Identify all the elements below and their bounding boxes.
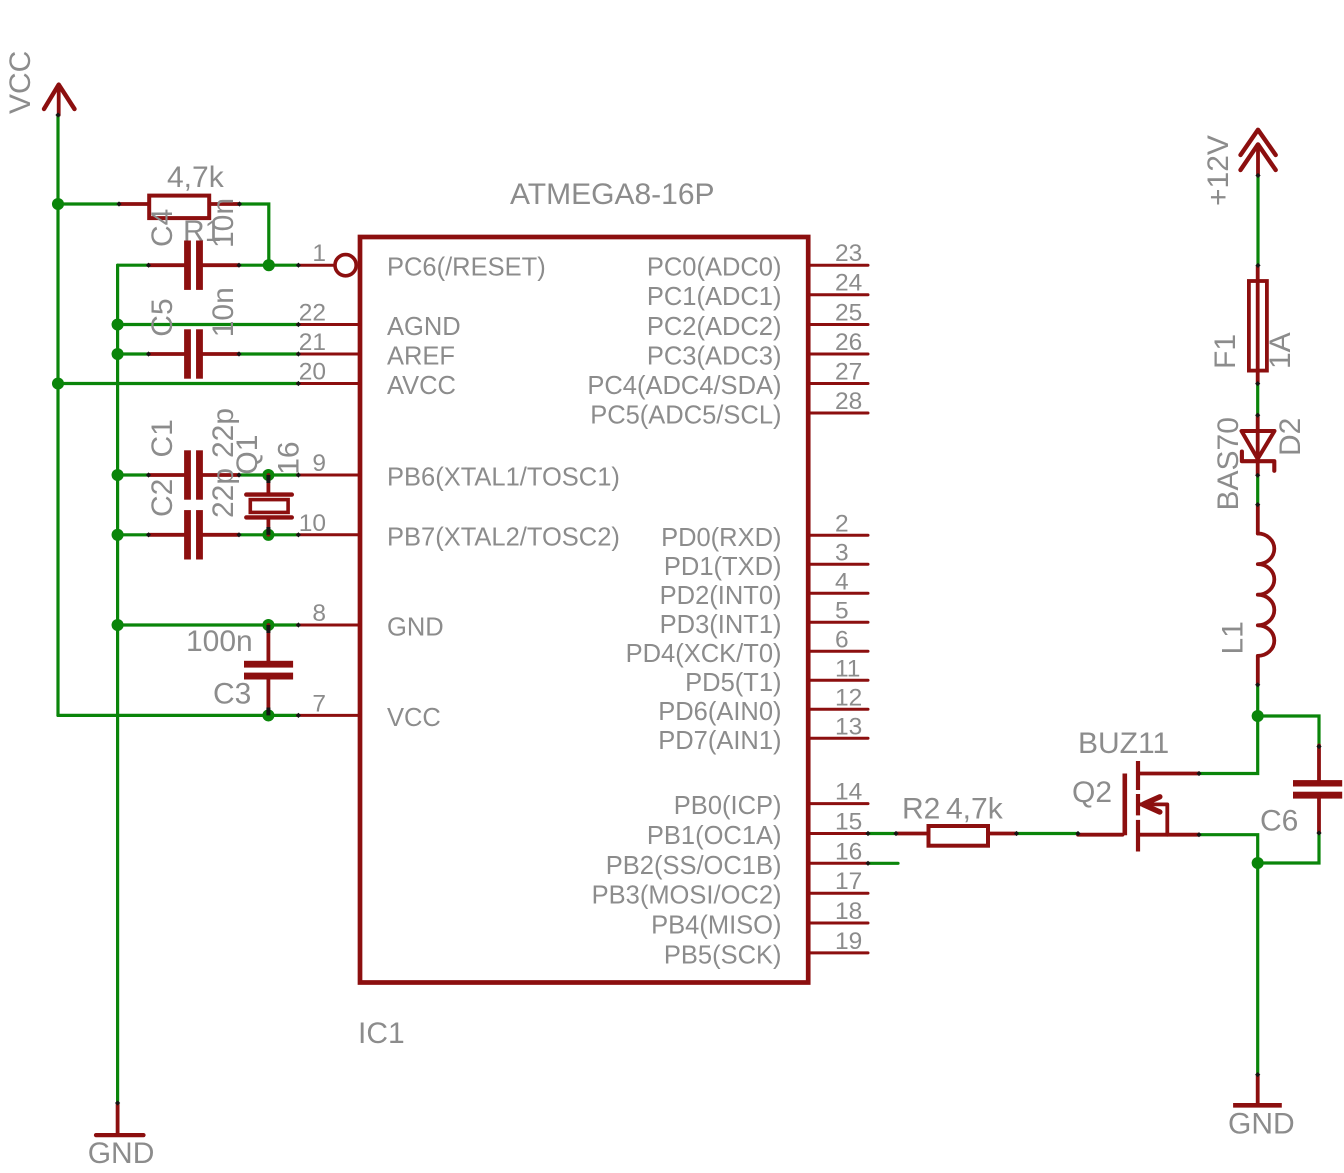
svg-text:Q2: Q2 [1072,776,1112,809]
svg-text:AREF: AREF [387,343,455,371]
pin 22 (AGND) [298,300,461,342]
wire Q2 source to node [1199,835,1258,863]
pin 1 (PC6(/RESET)) [298,240,545,282]
svg-text:4,7k: 4,7k [946,793,1004,826]
junction rail / GND row [112,619,124,631]
svg-text:AVCC: AVCC [387,372,456,400]
pin 2 (PD0(RXD)) [661,510,868,552]
svg-text:25: 25 [835,300,862,327]
svg-text:PB4(MISO): PB4(MISO) [651,912,781,940]
pin 16 (PB2(SS/OC1B)) [606,838,868,880]
wire Q2 drain to node [1199,716,1258,774]
IC U1 ATMEGA8-16P box [360,237,808,983]
svg-text:PD3(INT1): PD3(INT1) [660,611,782,639]
svg-text:PB1(OC1A): PB1(OC1A) [647,822,782,850]
svg-text:18: 18 [835,898,862,925]
svg-text:PD1(TXD): PD1(TXD) [664,553,782,581]
junction GND row / C3 [262,619,274,631]
wire C4 to pin 1 [239,264,298,267]
inductor L1 [1258,505,1275,685]
svg-text:PD2(INT0): PD2(INT0) [660,582,782,610]
wire D2 to L1 [1256,475,1259,504]
pin 23 (PC0(ADC0)) [647,240,868,282]
junction rail / AGND [112,318,124,330]
junction source node [1252,857,1264,869]
wire pin 16 stub [868,862,898,865]
svg-text:GND: GND [1228,1108,1295,1141]
diode D2 BAS70 [1242,415,1275,475]
wire pin 15 to R2 [868,832,896,835]
svg-text:PB2(SS/OC1B): PB2(SS/OC1B) [606,852,782,880]
wire C1 to XTAL1 pin [239,473,298,476]
svg-text:PC6(/RESET): PC6(/RESET) [387,254,546,282]
pin 8 (GND) [298,600,444,642]
junction rail / C2 [112,529,124,541]
junction XTAL1 / Q1 [262,469,274,481]
svg-text:4,7k: 4,7k [167,161,225,194]
pin 28 (PC5(ADC5/SCL)) [590,388,868,430]
pin 9 (PB6(XTAL1/TOSC1)) [298,450,620,492]
svg-text:23: 23 [835,240,862,267]
svg-text:AGND: AGND [387,313,461,341]
wire AVCC row [58,382,298,385]
svg-text:C3: C3 [213,678,251,711]
pin 10 (PB7(XTAL2/TOSC2)) [298,510,620,552]
svg-text:GND: GND [88,1137,155,1170]
svg-text:F1: F1 [1209,334,1242,369]
wire F1 to D2 [1256,384,1259,416]
pin 17 (PB3(MOSI/OC2)) [592,868,868,910]
wire C5 to AREF pin [239,352,298,355]
pin 25 (PC2(ADC2)) [647,300,868,342]
svg-text:21: 21 [299,329,326,356]
svg-text:PC4(ADC4/SDA): PC4(ADC4/SDA) [587,372,781,400]
svg-text:1: 1 [312,240,326,267]
svg-text:PD4(XCK/T0): PD4(XCK/T0) [626,640,782,668]
svg-text:PC1(ADC1): PC1(ADC1) [647,283,782,311]
svg-text:C6: C6 [1260,805,1298,838]
svg-text:GND: GND [387,614,444,642]
crystal Q1 [246,475,291,535]
svg-text:L1: L1 [1216,621,1249,654]
wire R1 to pin 1 node [240,204,269,265]
pin 18 (PB4(MISO)) [651,898,868,940]
svg-text:20: 20 [299,359,326,386]
svg-text:5: 5 [835,597,849,624]
svg-text:10n: 10n [207,198,240,248]
wire rail to C2 [118,533,149,536]
svg-text:ATMEGA8-16P: ATMEGA8-16P [510,178,715,211]
capacitor C3 [244,625,293,715]
pin 7 (VCC) [298,690,441,732]
wire node to GND (right) [1256,863,1259,1075]
capacitor C5 [149,329,240,378]
pin 20 (AVCC) [298,359,456,401]
pin 4 (PD2(INT0)) [660,568,868,610]
svg-text:PB6(XTAL1/TOSC1): PB6(XTAL1/TOSC1) [387,464,620,492]
pin 11 (PD5(T1)) [685,655,868,697]
svg-text:17: 17 [835,868,862,895]
svg-text:VCC: VCC [4,51,37,114]
pin 3 (PD1(TXD)) [664,539,868,581]
wire GND row [118,623,299,626]
wire rail to C5 [118,352,149,355]
svg-text:C4: C4 [146,209,179,247]
pin 26 (PC3(ADC3)) [647,329,868,371]
svg-text:PD7(AIN1): PD7(AIN1) [658,727,781,755]
wire AGND row [118,323,299,326]
wire C6 bottom to node [1258,833,1319,863]
wire VCC rail vertical [56,115,59,715]
svg-text:PB0(ICP): PB0(ICP) [674,792,782,820]
ground GND (left) [96,1105,144,1136]
svg-text:VCC: VCC [387,704,441,732]
junction VCC / R1 [52,198,64,210]
pin-end junction markers [55,112,1321,1105]
supply symbol VCC [44,85,75,115]
junction rail / C5 [112,348,124,360]
svg-text:9: 9 [312,450,326,477]
capacitor C4 [149,241,240,290]
svg-text:Q1: Q1 [231,435,264,475]
junction node /RESET [263,259,275,271]
wire +12V to F1 [1256,176,1259,266]
wire VCC to pin 7 [58,714,298,717]
pin 12 (PD6(AIN0)) [658,684,868,726]
svg-text:27: 27 [835,359,862,386]
svg-text:PC2(ADC2): PC2(ADC2) [647,313,782,341]
wire rail to C4 [118,264,149,267]
wire ground rail vertical [116,265,119,1103]
junction rail / C1 [112,469,124,481]
svg-text:PC3(ADC3): PC3(ADC3) [647,343,782,371]
pin 5 (PD3(INT1)) [660,597,868,639]
fuse F1 [1249,266,1267,384]
svg-text:3: 3 [835,539,849,566]
svg-text:BUZ11: BUZ11 [1078,727,1169,760]
wire L1 to node [1256,685,1259,716]
svg-text:PD0(RXD): PD0(RXD) [661,524,781,552]
svg-text:16: 16 [835,838,862,865]
svg-text:28: 28 [835,388,862,415]
capacitor C1 [149,450,240,499]
svg-text:10n: 10n [207,287,240,337]
svg-text:19: 19 [835,928,862,955]
svg-text:4: 4 [835,568,849,595]
svg-text:6: 6 [835,626,849,653]
svg-text:R2: R2 [902,793,940,826]
capacitor C6 [1293,745,1342,833]
wire VCC to R1 [58,202,119,205]
pin 21 (AREF) [298,329,456,371]
svg-text:26: 26 [835,329,862,356]
svg-text:10: 10 [299,510,326,537]
junction VCC row / C3 [262,709,274,721]
wire C2 to XTAL2 pin [239,533,298,536]
pin tips at junctions [266,475,270,483]
svg-text:13: 13 [835,713,862,740]
wire R2 to Q2 gate [1017,832,1079,835]
svg-text:IC1: IC1 [358,1017,405,1050]
svg-text:PB3(MOSI/OC2): PB3(MOSI/OC2) [592,882,782,910]
pin 19 (PB5(SCK)) [664,928,868,970]
svg-text:22: 22 [299,300,326,327]
svg-text:C5: C5 [146,298,179,336]
svg-text:PD5(T1): PD5(T1) [685,669,781,697]
wire node to C6 top [1258,716,1319,747]
svg-text:+12V: +12V [1202,135,1235,206]
pin 6 (PD4(XCK/T0)) [626,626,868,668]
svg-text:14: 14 [835,779,862,806]
svg-text:8: 8 [312,600,326,627]
svg-text:PC5(ADC5/SCL): PC5(ADC5/SCL) [590,402,781,430]
svg-text:PB5(SCK): PB5(SCK) [664,941,782,969]
ground GND (right) [1233,1075,1282,1106]
transistor Q2 BUZ11 [1078,761,1199,852]
pin 24 (PC1(ADC1)) [647,270,868,312]
svg-text:C2: C2 [146,479,179,517]
svg-text:100n: 100n [186,625,253,658]
junction XTAL2 / Q1 [262,529,274,541]
svg-text:BAS70: BAS70 [1212,417,1245,510]
pin 27 (PC4(ADC4/SDA)) [587,359,868,401]
svg-text:PD6(AIN0): PD6(AIN0) [658,698,781,726]
svg-text:PC0(ADC0): PC0(ADC0) [647,254,782,282]
svg-text:1A: 1A [1264,332,1297,369]
svg-text:11: 11 [835,655,860,682]
svg-text:D2: D2 [1274,418,1307,456]
svg-text:PB7(XTAL2/TOSC2): PB7(XTAL2/TOSC2) [387,523,620,551]
supply symbol +12V [1241,130,1276,176]
junction drain node [1252,710,1264,722]
pin 13 (PD7(AIN1)) [658,713,868,755]
svg-text:16: 16 [273,441,306,474]
svg-text:C1: C1 [146,419,179,457]
capacitor C2 [149,510,240,559]
svg-text:2: 2 [835,510,849,537]
svg-text:7: 7 [312,690,326,717]
svg-text:12: 12 [835,684,862,711]
pin 14 (PB0(ICP)) [674,779,868,821]
svg-text:24: 24 [835,270,862,297]
resistor R1 [119,196,240,219]
pin 15 (PB1(OC1A)) [647,809,868,851]
wire rail to C1 [118,473,149,476]
svg-text:15: 15 [835,809,862,836]
resistor R2 [896,826,1017,846]
junction VCC / AVCC row [52,377,64,389]
